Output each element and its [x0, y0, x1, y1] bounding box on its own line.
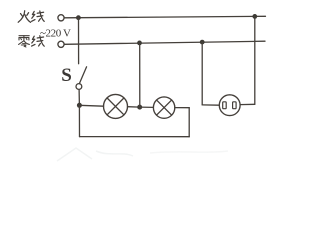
wire: node B to lamp L2: [140, 106, 154, 108]
node B (junction between lamps): [137, 105, 142, 110]
switch blade (open): [79, 67, 86, 84]
lamp L2: [153, 97, 174, 118]
wire: stub to socket left: [202, 104, 219, 106]
node A (junction below switch): [77, 103, 82, 108]
terminal (neutral): [58, 41, 64, 47]
wire: right side down: [188, 108, 190, 137]
wire: socket right rise: [254, 16, 256, 104]
wire: neutral horizontal: [64, 41, 265, 44]
faint scan smudges bottom: [57, 148, 228, 161]
wire: socket left drop: [201, 42, 203, 105]
label 零线 (neutral wire): [19, 36, 45, 47]
node: junction on neutral wire: [137, 41, 142, 46]
wire: junction A to lamp L1: [79, 104, 103, 107]
wire: down from live junction to switch: [78, 18, 80, 64]
wire: lamp L2 to right corner: [175, 107, 189, 109]
socket X1: [219, 95, 240, 116]
wire: lamp L1 to node B: [128, 106, 140, 108]
switch contact circle: [76, 84, 82, 90]
wire: stub from socket right: [240, 103, 255, 105]
wire: neutral junction down to node B: [139, 43, 141, 107]
wire: bottom return: [80, 136, 190, 138]
wire: live horizontal: [64, 16, 265, 18]
wire: switch to junction A: [78, 90, 80, 106]
node: junction on live wire for socket: [252, 14, 257, 19]
node: junction on live wire above switch: [76, 15, 81, 20]
svg-text:~220 V: ~220 V: [40, 27, 71, 39]
lamp L1: [104, 94, 128, 118]
svg-text:S: S: [61, 65, 72, 86]
node: junction on neutral wire for socket: [200, 40, 205, 45]
label 火线 (live wire): [18, 11, 44, 22]
terminal (live): [58, 15, 64, 21]
wire: left side up to node A: [78, 105, 80, 136]
